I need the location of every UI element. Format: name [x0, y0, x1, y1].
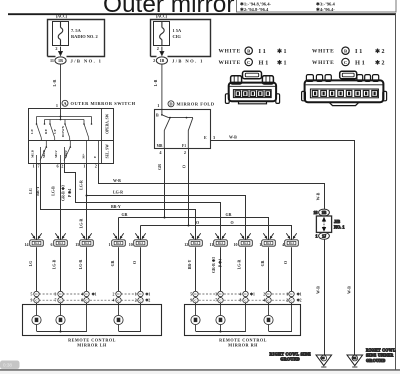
svg-text:J/B NO. 1: J/B NO. 1 [71, 58, 103, 63]
svg-text:OPERA. SW: OPERA. SW [105, 113, 109, 133]
svg-text:O: O [181, 165, 186, 168]
svg-text:B1: B1 [353, 356, 357, 360]
svg-text:WHITE: WHITE [219, 49, 241, 55]
svg-text:10: 10 [234, 242, 238, 247]
svg-text:2: 2 [55, 46, 57, 51]
svg-text:10: 10 [129, 242, 133, 247]
svg-text:4: 4 [159, 150, 162, 155]
svg-text:MLB: MLB [31, 149, 35, 157]
svg-text:H 1: H 1 [259, 60, 269, 67]
svg-text:2: 2 [153, 58, 155, 63]
svg-text:2: 2 [135, 299, 137, 303]
svg-text:✱1:-’94.8,’96.4-: ✱1:-’94.8,’96.4- [240, 1, 271, 6]
svg-text:1 5A: 1 5A [173, 28, 182, 33]
svg-text:7. 5A: 7. 5A [71, 28, 82, 33]
svg-text:2: 2 [184, 150, 186, 155]
svg-text:GROUND: GROUND [280, 357, 300, 362]
svg-text:GR: GR [226, 212, 232, 217]
svg-text:✱2: ✱2 [297, 298, 302, 303]
svg-text:0:38: 0:38 [3, 363, 12, 368]
svg-text:LG-R: LG-R [79, 259, 83, 269]
svg-text:11: 11 [210, 242, 214, 247]
svg-text:1: 1 [259, 242, 261, 247]
svg-text:UP: UP [53, 128, 57, 134]
svg-text:RADIO NO. 2: RADIO NO. 2 [71, 34, 98, 39]
svg-text:✱1: ✱1 [250, 292, 255, 297]
svg-text:MLV: MLV [54, 150, 58, 158]
svg-text:1: 1 [33, 164, 35, 169]
svg-text:M+: M+ [82, 153, 86, 158]
svg-text:1: 1 [56, 103, 58, 108]
svg-text:8: 8 [81, 299, 83, 303]
svg-text:12: 12 [184, 242, 188, 247]
svg-text:MRV: MRV [64, 149, 68, 158]
svg-text:LG-R: LG-R [79, 218, 83, 228]
svg-text:DOWN: DOWN [61, 125, 65, 137]
svg-text:8: 8 [239, 299, 241, 303]
svg-text:WHITE: WHITE [312, 60, 334, 66]
svg-text:2: 2 [95, 164, 97, 169]
svg-text:GR: GR [261, 260, 265, 266]
svg-text:4: 4 [239, 293, 241, 297]
svg-text:B: B [156, 112, 159, 117]
svg-text:4: 4 [81, 293, 83, 297]
svg-text:GR: GR [157, 164, 162, 170]
svg-text:GR-B ✱3: GR-B ✱3 [211, 257, 216, 273]
svg-text:BR-Y: BR-Y [36, 186, 40, 196]
svg-text:1: 1 [109, 242, 111, 247]
svg-text:9: 9 [30, 299, 32, 303]
svg-text:MIRROR FOLD: MIRROR FOLD [177, 102, 215, 107]
svg-text:✱2: ✱2 [145, 298, 150, 303]
svg-text:F1: F1 [182, 144, 186, 148]
svg-text:2: 2 [157, 46, 159, 51]
svg-text:6: 6 [57, 164, 59, 169]
svg-text:L-B: L-B [153, 79, 158, 86]
svg-text:2: 2 [112, 293, 114, 297]
svg-text:J/B NO. 1: J/B NO. 1 [172, 58, 204, 63]
svg-text:✱1: ✱1 [145, 292, 150, 297]
svg-text:2: 2 [61, 164, 63, 169]
svg-text:O: O [284, 261, 288, 264]
svg-text:6: 6 [51, 242, 53, 247]
svg-text:W-B: W-B [317, 192, 321, 200]
svg-text:SEL. SW: SEL. SW [105, 144, 109, 159]
svg-text:GR-B ✱3: GR-B ✱3 [61, 185, 66, 201]
svg-text:18: 18 [314, 210, 318, 215]
svg-text:D: D [169, 102, 172, 107]
svg-text:W-B: W-B [317, 286, 321, 294]
svg-text:15: 15 [75, 242, 79, 247]
svg-text:LG-R: LG-R [237, 259, 241, 269]
svg-text:2: 2 [286, 299, 288, 303]
svg-text:L-R: L-R [52, 79, 57, 86]
svg-text:I 1: I 1 [355, 48, 362, 55]
svg-text:E: E [204, 135, 207, 140]
svg-text:WHITE: WHITE [312, 49, 334, 55]
svg-text:LE: LE [30, 129, 34, 134]
svg-text:✱ 1: ✱ 1 [277, 60, 287, 67]
svg-text:B: B [247, 49, 250, 54]
svg-text:7: 7 [215, 299, 217, 303]
svg-text:3: 3 [215, 293, 217, 297]
svg-text:✱1: ✱1 [297, 292, 302, 297]
svg-text:1: 1 [135, 293, 137, 297]
svg-text:1: 1 [157, 103, 159, 108]
svg-text:7: 7 [38, 164, 40, 169]
svg-text:4: 4 [282, 242, 284, 247]
svg-text:4: 4 [263, 299, 265, 303]
svg-text:O: O [133, 261, 137, 264]
svg-text:LG-R: LG-R [113, 190, 123, 195]
svg-text:LG-B: LG-B [52, 186, 56, 196]
svg-text:9: 9 [190, 299, 192, 303]
svg-text:H 1: H 1 [355, 60, 365, 67]
svg-text:3: 3 [54, 293, 56, 297]
svg-text:4: 4 [112, 299, 114, 303]
svg-text:O: O [231, 220, 234, 225]
svg-text:✱1: ✱1 [92, 292, 97, 297]
svg-text:5: 5 [190, 293, 192, 297]
svg-text:O: O [196, 220, 199, 225]
svg-text:MRB: MRB [42, 149, 46, 158]
svg-text:P ✱4: P ✱4 [218, 259, 223, 267]
svg-text:1B: 1B [322, 210, 327, 215]
svg-text:✱4:’96.4-: ✱4:’96.4- [316, 7, 335, 12]
svg-text:1B: 1B [58, 58, 63, 63]
svg-text:W-B: W-B [113, 178, 121, 183]
svg-text:RE: RE [44, 128, 48, 134]
svg-text:WHITE: WHITE [219, 60, 241, 66]
svg-text:LG: LG [29, 188, 33, 194]
svg-text:7: 7 [54, 299, 56, 303]
svg-text:(ACC): (ACC) [56, 14, 68, 19]
svg-text:MB: MB [157, 144, 163, 148]
svg-text:C: C [247, 60, 250, 65]
svg-text:3: 3 [213, 135, 215, 140]
svg-text:MIRROR LH: MIRROR LH [77, 343, 107, 348]
svg-text:C: C [344, 60, 347, 65]
svg-text:J/B: J/B [334, 219, 340, 224]
svg-text:CIG: CIG [173, 34, 182, 39]
svg-text:✱2:’94.8-’96.4: ✱2:’94.8-’96.4 [240, 7, 269, 12]
svg-text:GR: GR [111, 260, 115, 266]
svg-text:11: 11 [50, 58, 54, 63]
svg-text:W-B: W-B [347, 286, 351, 294]
svg-text:GR: GR [122, 212, 128, 217]
svg-text:W-B: W-B [229, 135, 237, 140]
svg-text:✱ 2: ✱ 2 [375, 48, 385, 55]
svg-text:✱ 1: ✱ 1 [277, 48, 287, 55]
svg-text:1: 1 [83, 164, 85, 169]
svg-text:E: E [93, 155, 97, 158]
svg-text:LG: LG [29, 261, 33, 267]
svg-text:✱3:-’96.4: ✱3:-’96.4 [316, 1, 335, 6]
svg-text:1J: 1J [322, 234, 326, 239]
svg-text:1: 1 [316, 234, 318, 239]
svg-text:LG-R: LG-R [79, 180, 83, 190]
svg-text:GROUND: GROUND [366, 358, 386, 363]
svg-text:MIRROR RH: MIRROR RH [228, 343, 258, 348]
svg-text:BR-Y: BR-Y [188, 260, 192, 270]
svg-text:C6: C6 [321, 356, 325, 360]
svg-text:1B: 1B [159, 58, 164, 63]
svg-text:P ✱4: P ✱4 [67, 189, 72, 197]
svg-text:LG-B: LG-B [52, 259, 56, 269]
svg-text:✱ 2: ✱ 2 [375, 60, 385, 67]
svg-text:(ACC): (ACC) [156, 14, 168, 19]
svg-text:NO. 1: NO. 1 [334, 225, 344, 230]
svg-text:2: 2 [263, 293, 265, 297]
svg-text:BR-Y: BR-Y [111, 204, 121, 209]
svg-text:14: 14 [25, 242, 29, 247]
svg-text:B: B [344, 49, 347, 54]
svg-text:1: 1 [286, 293, 288, 297]
svg-text:5: 5 [30, 293, 32, 297]
svg-text:OUTER MIRROR SWITCH: OUTER MIRROR SWITCH [71, 101, 136, 106]
svg-text:Outer mirror: Outer mirror [103, 0, 234, 18]
svg-text:I 1: I 1 [259, 48, 266, 55]
